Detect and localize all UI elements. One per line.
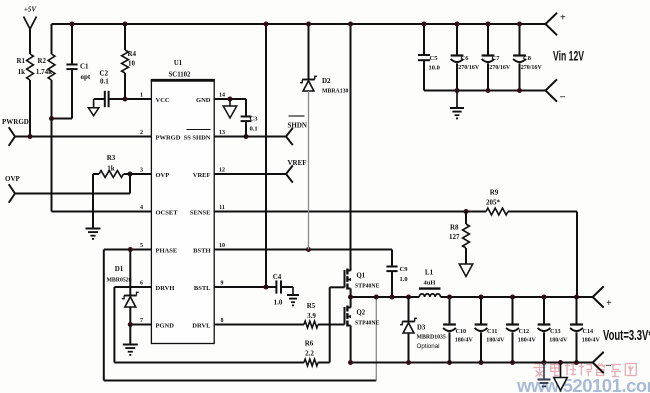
resistor R3 1k — [93, 154, 151, 177]
svg-text:1.0: 1.0 — [274, 299, 283, 307]
svg-text:OVP: OVP — [156, 172, 170, 179]
svg-text:180/4V: 180/4V — [455, 338, 474, 344]
connector SHDN — [286, 116, 307, 145]
svg-text:6: 6 — [140, 281, 143, 287]
resistor R4 10 — [122, 24, 137, 99]
svg-text:–: – — [605, 360, 612, 371]
svg-text:STP40NE: STP40NE — [355, 321, 380, 327]
svg-text:0.1: 0.1 — [100, 78, 109, 86]
ground (PGND) — [123, 345, 138, 355]
svg-text:+: + — [560, 13, 566, 24]
capacitor C14 180/4V — [570, 297, 600, 363]
svg-text:D2: D2 — [322, 77, 331, 85]
label Vout — [603, 328, 650, 344]
svg-text:10: 10 — [219, 243, 225, 249]
connector Vin + — [546, 13, 567, 36]
resistor R8 127 — [449, 212, 469, 265]
svg-text:C12: C12 — [519, 328, 530, 335]
ground (C4) — [287, 295, 299, 305]
svg-text:1: 1 — [140, 93, 143, 99]
svg-text:C10: C10 — [456, 328, 467, 335]
svg-text:PWRGD: PWRGD — [156, 135, 181, 142]
svg-text:1k: 1k — [107, 165, 115, 173]
svg-text:SENSE: SENSE — [190, 210, 211, 217]
svg-text:11: 11 — [219, 205, 225, 211]
svg-text:13: 13 — [219, 130, 225, 136]
svg-text:MBR0520: MBR0520 — [106, 278, 131, 284]
connector VREF — [286, 159, 307, 183]
wire VREF — [214, 173, 286, 175]
ground (R8, open triangle) — [459, 264, 473, 277]
svg-text:C7: C7 — [492, 55, 501, 62]
svg-text:C8: C8 — [523, 55, 532, 62]
resistor R2 1.74k — [36, 24, 55, 119]
svg-text:R1: R1 — [16, 57, 25, 65]
svg-text:+5V: +5V — [24, 6, 37, 14]
svg-text:C11: C11 — [487, 328, 497, 335]
svg-text:OVP: OVP — [5, 175, 21, 183]
svg-text:C1: C1 — [80, 63, 89, 71]
wire PHASE sense vertical — [375, 297, 377, 381]
svg-text:10.0: 10.0 — [429, 65, 440, 72]
svg-text:C3: C3 — [250, 116, 259, 123]
svg-text:7: 7 — [140, 318, 143, 324]
wire BSTL — [214, 285, 276, 290]
svg-text:VCC: VCC — [156, 97, 170, 104]
capacitor C4 1.0 — [273, 273, 293, 307]
svg-text:PWRGD: PWRGD — [2, 118, 29, 126]
svg-text:3.9: 3.9 — [307, 312, 316, 320]
svg-text:270/16V: 270/16V — [489, 65, 511, 71]
svg-text:Q2: Q2 — [357, 310, 366, 317]
capacitor C8 270/16V — [513, 22, 542, 91]
wire switch node — [348, 295, 419, 300]
svg-text:14: 14 — [219, 93, 225, 99]
svg-text:D1: D1 — [115, 265, 124, 273]
svg-text:SS SHDN: SS SHDN — [184, 135, 211, 142]
wire R6 to Q1 gate — [330, 287, 345, 362]
svg-text:180/4V: 180/4V — [518, 338, 537, 344]
svg-text:8: 8 — [221, 318, 224, 324]
capacitor C1 opt — [66, 24, 90, 119]
wire input ground rail — [424, 88, 546, 93]
svg-text:R6: R6 — [305, 340, 314, 348]
resistor R6 2.2 — [304, 340, 330, 366]
svg-text:D3: D3 — [417, 325, 426, 332]
ground (input) — [450, 91, 464, 119]
capacitor C6 270/16V — [451, 22, 480, 91]
svg-text:1.74k: 1.74k — [36, 68, 52, 76]
ground (GND pin, open triangle) — [223, 106, 237, 118]
svg-text:L1: L1 — [425, 269, 434, 277]
svg-text:MBRD1035: MBRD1035 — [417, 335, 446, 341]
svg-text:R4: R4 — [128, 50, 137, 58]
svg-text:4uH: 4uH — [424, 280, 436, 287]
svg-text:SC1102: SC1102 — [169, 72, 192, 79]
watermark url text — [516, 375, 650, 393]
ground (R3 left) — [86, 174, 101, 239]
connector Vout - — [593, 352, 612, 373]
capacitor C2 0.1 — [88, 70, 151, 116]
wire R9 to Vout — [576, 212, 578, 298]
connector Vout + — [593, 286, 612, 309]
svg-text:3: 3 — [140, 168, 143, 174]
svg-text:2.2: 2.2 — [305, 350, 314, 358]
svg-text:127: 127 — [449, 233, 460, 241]
resistor R9 205* — [486, 189, 577, 215]
node R2/C1 junction — [49, 22, 128, 122]
label Vin — [553, 49, 584, 64]
svg-text:R8: R8 — [450, 224, 459, 232]
watermark chinese text — [534, 364, 637, 377]
wire top rail +12V — [52, 23, 546, 25]
capacitor C12 180/4V — [506, 297, 536, 363]
connector OVP input — [5, 172, 133, 203]
svg-text:Vout=3.3V*: Vout=3.3V* — [603, 328, 650, 344]
svg-text:STP40NE: STP40NE — [355, 284, 380, 290]
ground (output, open triangle) — [554, 363, 568, 391]
svg-text:1k: 1k — [18, 68, 26, 76]
svg-text:180/4V: 180/4V — [549, 338, 568, 344]
svg-text:C6: C6 — [461, 55, 470, 62]
capacitor C5 10.0 — [418, 22, 440, 91]
capacitor C3 0.1 — [241, 99, 259, 139]
ground (output, bars) — [538, 363, 551, 387]
wire 12V to Q1 drain — [348, 22, 353, 271]
svg-text:–: – — [559, 92, 566, 103]
svg-text:0.1: 0.1 — [250, 126, 258, 133]
wire PHASE loop — [104, 247, 377, 381]
svg-text:Q1: Q1 — [357, 273, 366, 280]
connector Vin - — [546, 79, 567, 102]
svg-text:R2: R2 — [37, 57, 46, 65]
svg-text:C2: C2 — [100, 70, 109, 78]
svg-text:C5: C5 — [430, 55, 439, 62]
resistor R5 3.9 — [304, 302, 345, 328]
vertical 12V to BSTL — [264, 22, 269, 288]
wire SS/SHDN — [214, 136, 286, 138]
svg-text:BSTH: BSTH — [193, 248, 210, 255]
svg-text:C14: C14 — [583, 328, 594, 335]
IC U1 SC1102 — [140, 60, 225, 344]
wire DRVL to Q2 gate — [214, 324, 304, 326]
connector PWRGD input — [2, 118, 151, 146]
wire SENSE — [214, 209, 486, 214]
svg-text:DRVL: DRVL — [192, 323, 211, 330]
svg-text:C4: C4 — [273, 273, 282, 281]
svg-text:180/4V: 180/4V — [582, 338, 601, 344]
svg-text:270/16V: 270/16V — [458, 65, 480, 71]
diode D2 MBRA130 — [300, 22, 348, 250]
svg-text:C13: C13 — [550, 328, 561, 335]
capacitor C11 180/4V — [475, 297, 505, 363]
wire Vout rail — [441, 295, 593, 300]
svg-text:PGND: PGND — [156, 323, 175, 330]
svg-text:+: + — [606, 298, 612, 309]
diode D1 MBR0520 — [106, 250, 138, 325]
svg-text:Vin 12V: Vin 12V — [553, 49, 584, 64]
transistor Q1 STP40NE — [345, 269, 380, 298]
svg-text:180/4V: 180/4V — [486, 338, 505, 344]
svg-text:MBRA130: MBRA130 — [322, 89, 349, 95]
capacitor C10 180/4V — [443, 297, 473, 363]
svg-text:10: 10 — [128, 60, 136, 68]
transistor Q2 STP40NE — [345, 297, 380, 363]
svg-text:1.0: 1.0 — [400, 276, 408, 283]
svg-text:BSTL: BSTL — [194, 285, 211, 292]
svg-text:R5: R5 — [307, 302, 316, 310]
svg-text:5: 5 — [140, 243, 143, 249]
diode D3 MBRD1035 Optional — [400, 297, 446, 363]
svg-text:U1: U1 — [174, 60, 183, 67]
resistor R1 1k — [16, 54, 33, 137]
wire PGND — [128, 322, 152, 344]
svg-text:Optional: Optional — [417, 343, 440, 350]
wire GND pin 14 — [214, 97, 246, 107]
svg-text:2: 2 — [140, 130, 143, 136]
svg-text:12: 12 — [219, 168, 225, 174]
svg-text:R9: R9 — [490, 189, 499, 197]
svg-text:SHDN: SHDN — [288, 122, 307, 130]
capacitor C7 270/16V — [482, 22, 511, 91]
svg-text:opt: opt — [81, 73, 91, 81]
svg-text:4: 4 — [140, 205, 143, 211]
svg-text:VREF: VREF — [288, 159, 307, 167]
wire DRVH to R6 — [114, 287, 304, 363]
svg-text:205*: 205* — [486, 199, 501, 207]
capacitor C9 1.0 — [386, 266, 408, 297]
svg-text:www.520101.com: www.520101.com — [516, 375, 650, 393]
wire OCSET run — [52, 119, 152, 212]
svg-text:DRVH: DRVH — [156, 285, 175, 292]
svg-text:GND: GND — [196, 97, 211, 104]
svg-text:9: 9 — [221, 281, 224, 287]
wire BSTH — [214, 247, 392, 267]
svg-text:VREF: VREF — [193, 172, 211, 179]
svg-text:PHASE: PHASE — [156, 248, 178, 255]
wire output ground rail — [348, 360, 593, 365]
svg-text:R3: R3 — [107, 154, 116, 162]
svg-text:C9: C9 — [400, 266, 409, 273]
inductor L1 4uH — [419, 269, 441, 298]
svg-text:270/16V: 270/16V — [521, 65, 543, 71]
capacitor C13 180/4V — [538, 297, 568, 363]
power +5V supply — [24, 6, 38, 55]
svg-text:OCSET: OCSET — [156, 210, 179, 217]
